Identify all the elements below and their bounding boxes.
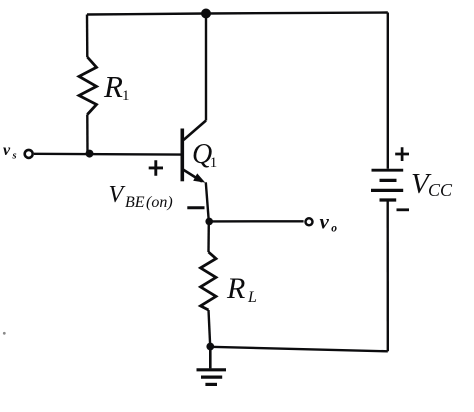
minus sign after VBE(on) <box>187 206 204 209</box>
transistor Q1 base bar <box>181 129 185 182</box>
minus sign battery <box>397 208 410 211</box>
svg-text:R: R <box>103 69 123 104</box>
svg-text:v: v <box>3 142 11 159</box>
wire left vertical R1 top lead <box>86 15 89 58</box>
svg-text:1: 1 <box>210 155 218 171</box>
plus sign battery <box>395 147 409 161</box>
node ground junction <box>206 343 214 351</box>
svg-text:BE: BE <box>125 194 145 211</box>
terminal vo open circle <box>306 218 313 225</box>
svg-text:v: v <box>320 210 330 234</box>
wire R1 bottom lead <box>86 115 89 154</box>
battery VCC <box>372 169 404 172</box>
wire RL bottom lead <box>209 310 211 346</box>
wire battery bottom lead <box>387 200 389 351</box>
wire output <box>209 220 303 222</box>
resistor R1 <box>79 57 97 115</box>
svg-text:L: L <box>247 289 257 306</box>
transistor Q1 collector diagonal <box>184 121 207 141</box>
node base junction <box>86 150 94 158</box>
wire bottom return <box>210 347 387 352</box>
svg-text:o: o <box>331 223 337 235</box>
node output junction <box>205 218 213 226</box>
terminal vs open circle <box>25 150 33 158</box>
svg-text:s: s <box>12 151 17 162</box>
wire top rail <box>87 13 388 15</box>
transistor Q1 emitter diagonal with arrow <box>183 170 202 182</box>
speck artifact <box>3 332 6 335</box>
svg-text:R: R <box>226 272 245 305</box>
svg-text:(on): (on) <box>146 194 173 211</box>
resistor RL <box>201 252 217 310</box>
wire collector vertical <box>205 14 207 121</box>
svg-text:CC: CC <box>428 180 453 200</box>
ground <box>209 347 212 369</box>
wire emitter vertical <box>206 182 209 221</box>
plus sign at base <box>149 160 163 176</box>
wire input vs to base <box>34 153 181 156</box>
svg-text:V: V <box>109 182 126 208</box>
svg-text:1: 1 <box>122 88 130 104</box>
wire junction to RL <box>207 222 210 253</box>
node top rail junction <box>201 9 211 19</box>
wire right vertical top <box>387 13 389 169</box>
